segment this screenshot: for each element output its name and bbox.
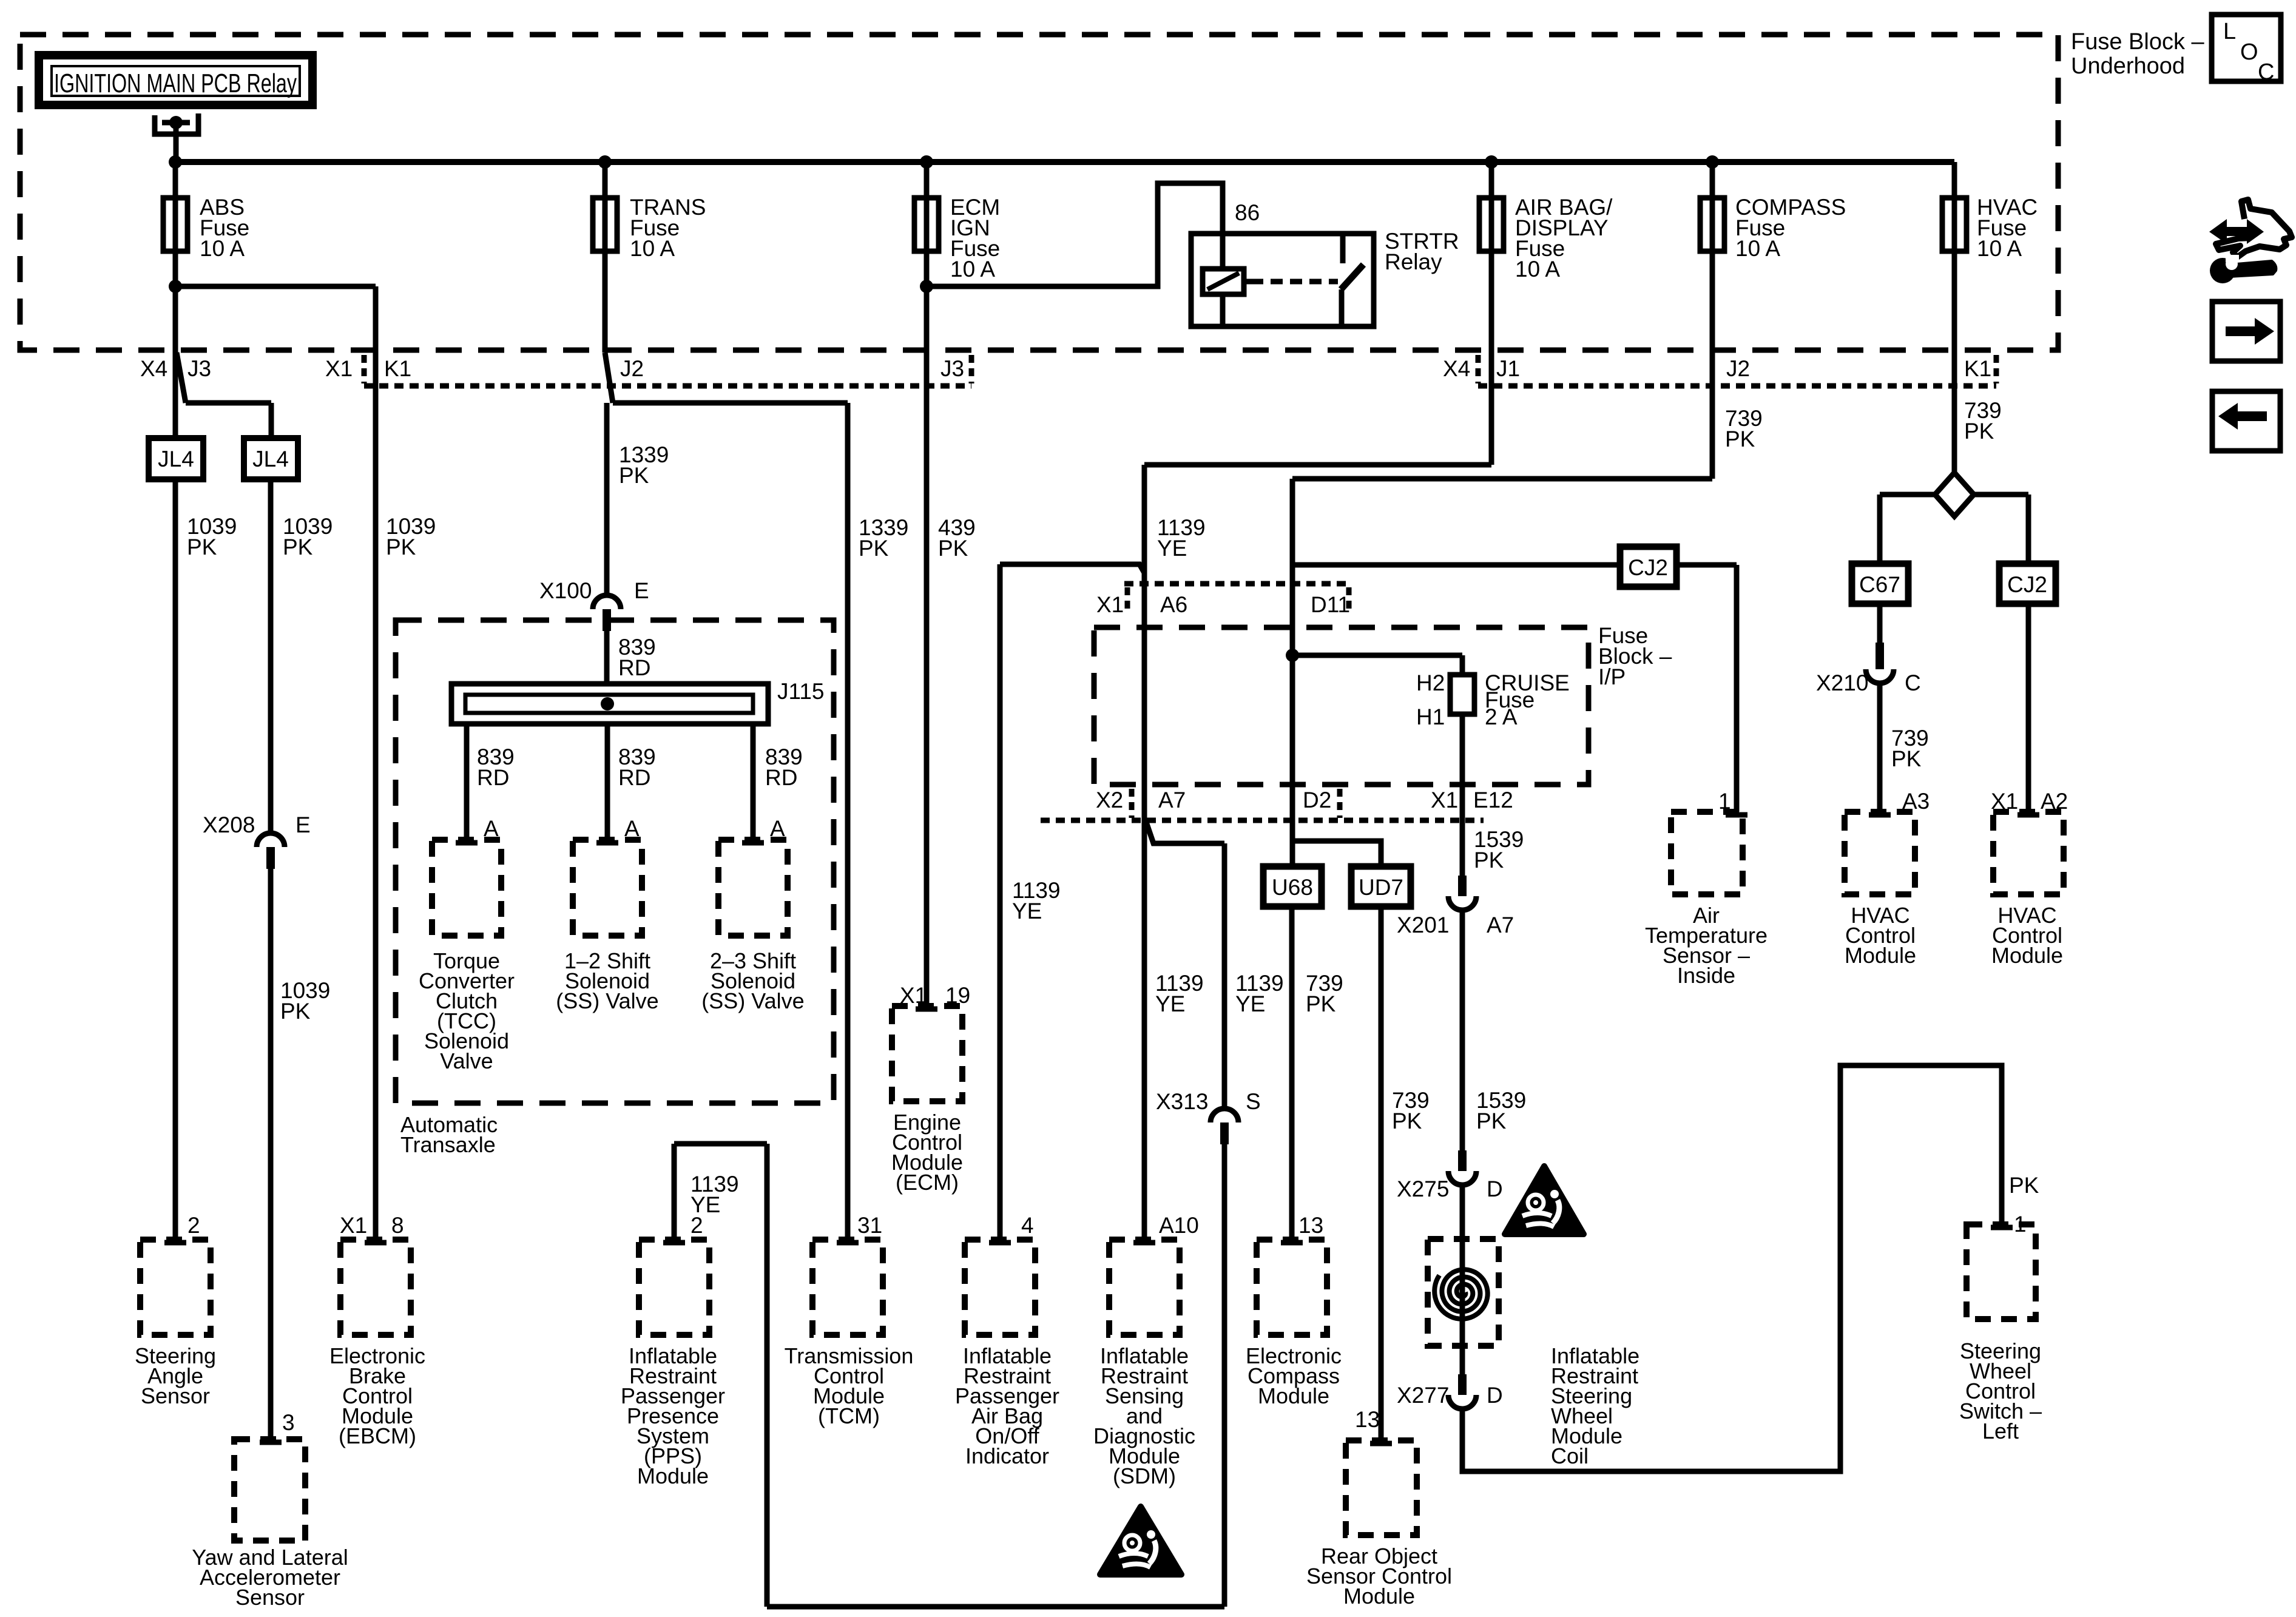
svg-text:RD: RD [765, 765, 797, 790]
svg-text:10 A: 10 A [200, 236, 245, 261]
svg-text:E: E [634, 578, 649, 603]
svg-text:JL4: JL4 [252, 447, 289, 471]
svg-text:(SDM): (SDM) [1113, 1463, 1176, 1488]
svg-text:A10: A10 [1159, 1213, 1199, 1238]
svg-text:YE: YE [1012, 899, 1042, 923]
svg-text:YE: YE [1155, 991, 1185, 1016]
svg-text:X4: X4 [1443, 356, 1470, 381]
svg-text:Module: Module [1258, 1383, 1329, 1408]
svg-text:Module: Module [1991, 943, 2063, 968]
svg-text:PK: PK [1474, 848, 1504, 873]
svg-text:PK: PK [280, 999, 311, 1024]
svg-text:13: 13 [1355, 1407, 1380, 1432]
svg-text:(SS) Valve: (SS) Valve [701, 988, 804, 1013]
svg-text:Module: Module [1343, 1584, 1415, 1609]
svg-text:J115: J115 [777, 679, 825, 704]
svg-text:D: D [1487, 1383, 1503, 1408]
svg-text:X210: X210 [1816, 670, 1868, 695]
svg-text:PK: PK [1306, 991, 1336, 1016]
svg-text:10 A: 10 A [1735, 236, 1780, 261]
svg-text:Module: Module [637, 1463, 709, 1488]
svg-text:(TCM): (TCM) [818, 1403, 880, 1428]
svg-text:K1: K1 [384, 356, 411, 381]
svg-text:X277: X277 [1397, 1383, 1449, 1408]
svg-text:E12: E12 [1473, 788, 1513, 812]
svg-text:E: E [295, 812, 311, 837]
svg-text:A7: A7 [1487, 913, 1514, 937]
svg-text:D2: D2 [1303, 788, 1331, 812]
svg-text:PK: PK [1891, 746, 1922, 771]
svg-text:Sensor: Sensor [141, 1383, 210, 1408]
svg-text:IGNITION MAIN PCB Relay: IGNITION MAIN PCB Relay [54, 69, 297, 98]
svg-text:2 A: 2 A [1485, 704, 1518, 729]
svg-text:X1: X1 [1431, 788, 1458, 812]
svg-text:CJ2: CJ2 [2007, 572, 2047, 597]
svg-text:JL4: JL4 [158, 447, 194, 471]
svg-text:Left: Left [1982, 1419, 2019, 1443]
svg-text:L: L [2223, 19, 2236, 44]
svg-text:CJ2: CJ2 [1628, 555, 1668, 580]
svg-text:Indicator: Indicator [965, 1443, 1049, 1468]
svg-text:I/P: I/P [1598, 664, 1626, 689]
svg-text:10 A: 10 A [1977, 236, 2022, 261]
svg-text:H1: H1 [1416, 704, 1445, 729]
svg-text:Sensor: Sensor [235, 1585, 305, 1610]
svg-text:10 A: 10 A [1515, 257, 1560, 282]
svg-text:PK: PK [619, 463, 649, 488]
svg-text:RD: RD [618, 765, 650, 790]
svg-text:YE: YE [1157, 536, 1187, 561]
svg-text:S: S [1246, 1089, 1261, 1114]
svg-text:4: 4 [1021, 1213, 1034, 1238]
svg-text:Valve: Valve [440, 1048, 493, 1073]
svg-text:86: 86 [1235, 200, 1260, 225]
svg-text:PK: PK [1725, 427, 1755, 451]
svg-text:PK: PK [859, 536, 889, 561]
svg-text:A6: A6 [1160, 592, 1187, 617]
svg-text:31: 31 [857, 1213, 882, 1238]
svg-text:J3: J3 [187, 356, 211, 381]
svg-text:13: 13 [1298, 1213, 1323, 1238]
svg-text:C: C [2258, 59, 2274, 85]
svg-text:Inside: Inside [1677, 963, 1735, 988]
svg-text:PK: PK [386, 535, 416, 559]
svg-text:J2: J2 [1726, 356, 1750, 381]
svg-text:(ECM): (ECM) [896, 1170, 959, 1195]
svg-text:K1: K1 [1964, 356, 1991, 381]
svg-text:X201: X201 [1397, 913, 1449, 937]
svg-text:X1: X1 [1096, 592, 1124, 617]
svg-text:UD7: UD7 [1359, 875, 1403, 900]
svg-text:J2: J2 [620, 356, 644, 381]
svg-text:A7: A7 [1158, 788, 1186, 812]
svg-text:PK: PK [187, 535, 217, 559]
svg-text:X2: X2 [1096, 788, 1123, 812]
svg-text:U68: U68 [1272, 875, 1313, 900]
svg-text:X313: X313 [1156, 1089, 1208, 1114]
svg-text:10 A: 10 A [630, 236, 675, 261]
svg-text:X4: X4 [140, 356, 167, 381]
svg-text:PK: PK [1964, 419, 1994, 444]
svg-text:J1: J1 [1496, 356, 1520, 381]
svg-text:YE: YE [1235, 991, 1265, 1016]
svg-text:C67: C67 [1859, 572, 1900, 597]
svg-text:X1: X1 [325, 356, 353, 381]
svg-text:2: 2 [690, 1213, 703, 1238]
svg-text:3: 3 [282, 1410, 295, 1435]
svg-text:PK: PK [938, 536, 968, 561]
svg-text:Transaxle: Transaxle [400, 1132, 496, 1157]
svg-text:PK: PK [283, 535, 313, 559]
svg-text:O: O [2240, 39, 2258, 65]
svg-text:PK: PK [2009, 1173, 2039, 1198]
svg-text:H2: H2 [1416, 670, 1445, 695]
svg-text:J3: J3 [940, 356, 964, 381]
svg-text:X208: X208 [203, 812, 255, 837]
svg-text:2: 2 [187, 1213, 200, 1238]
svg-text:RD: RD [477, 765, 509, 790]
svg-text:PK: PK [1392, 1109, 1422, 1133]
svg-text:Module: Module [1845, 943, 1916, 968]
svg-text:X275: X275 [1397, 1176, 1449, 1201]
svg-text:RD: RD [618, 655, 650, 680]
svg-text:C: C [1905, 670, 1921, 695]
svg-text:Relay: Relay [1385, 249, 1442, 274]
svg-text:D11: D11 [1311, 592, 1350, 617]
svg-text:Coil: Coil [1551, 1443, 1589, 1468]
svg-text:Fuse Block –: Fuse Block – [2071, 29, 2205, 55]
svg-text:PK: PK [1476, 1109, 1507, 1133]
svg-text:10 A: 10 A [950, 257, 995, 282]
svg-text:8: 8 [391, 1213, 404, 1238]
svg-text:(SS) Valve: (SS) Valve [556, 988, 658, 1013]
svg-text:X1: X1 [340, 1213, 367, 1238]
svg-text:D: D [1487, 1176, 1503, 1201]
svg-text:X100: X100 [539, 578, 592, 603]
svg-text:(EBCM): (EBCM) [339, 1423, 416, 1448]
svg-text:Underhood: Underhood [2071, 53, 2185, 79]
